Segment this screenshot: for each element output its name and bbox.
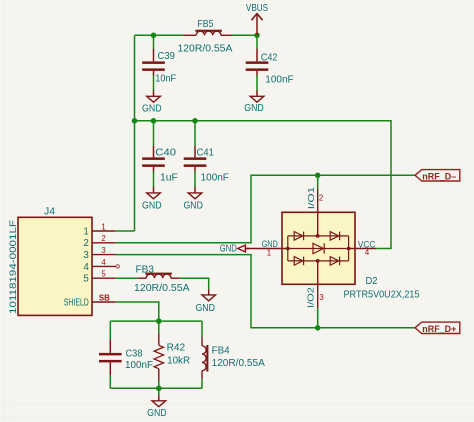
svg-text:C42: C42 (261, 52, 278, 63)
wire SHIELD run (116, 302, 159, 321)
svg-text:D2: D2 (366, 276, 378, 287)
resistor R42 (158, 334, 160, 346)
ground D2 pin1 (238, 245, 246, 252)
svg-text:5: 5 (101, 270, 106, 279)
svg-text:SHIELD: SHIELD (64, 297, 89, 308)
svg-text:GND: GND (142, 103, 162, 114)
global label nRF_D+ (415, 322, 460, 333)
sheet frame line bottom (0, 403, 474, 405)
svg-text:2: 2 (319, 194, 323, 203)
svg-text:VBUS: VBUS (246, 3, 269, 14)
svg-text:SB: SB (99, 293, 110, 302)
svg-text:GND: GND (244, 103, 264, 114)
svg-text:100nF: 100nF (265, 75, 293, 86)
svg-text:4: 4 (83, 262, 89, 273)
junction VCC bus / C40 (151, 118, 157, 124)
wire D2 GND stub (245, 248, 249, 250)
svg-text:PRTR5V0U2X,215: PRTR5V0U2X,215 (344, 290, 420, 301)
ground C41 (194, 187, 196, 193)
junction VCC bus / C41 (192, 118, 198, 124)
D2 diode top-left (294, 232, 303, 241)
svg-text:C39: C39 (158, 51, 176, 62)
svg-text:10118194-0001LF: 10118194-0001LF (8, 220, 18, 314)
svg-text:C38: C38 (126, 349, 143, 360)
svg-text:1: 1 (267, 248, 271, 257)
svg-text:2: 2 (83, 238, 88, 249)
capacitor C40 (153, 146, 155, 157)
wire VCC bus (135, 121, 392, 249)
svg-text:GND: GND (147, 408, 167, 419)
wire C40 drop (153, 121, 155, 146)
connector J4 pins (92, 230, 116, 232)
wire C39 drop (153, 35, 155, 48)
D2 pin4 VCC (349, 248, 377, 250)
J4 pin4 unconnected circle (116, 265, 119, 268)
ground C40 (153, 187, 155, 193)
svg-text:4: 4 (365, 248, 370, 257)
wire C38 branch (109, 321, 111, 339)
ground C42 (256, 91, 258, 97)
svg-text:4: 4 (101, 258, 106, 267)
junction top wire / VBUS (254, 33, 260, 39)
svg-text:120R/0.55A: 120R/0.55A (134, 283, 190, 294)
svg-text:120R/0.55A: 120R/0.55A (212, 358, 265, 369)
wire C40 to GND (153, 172, 155, 188)
junction shield rail top (156, 318, 162, 324)
svg-text:10nF: 10nF (155, 73, 176, 84)
capacitor C41 (194, 146, 196, 157)
svg-text:FB4: FB4 (212, 345, 230, 356)
wire shield bottom rail (110, 387, 202, 389)
wire nRF_D+ run (116, 255, 415, 328)
wire VBUS top run (135, 34, 184, 36)
ferrite bead FB3 (137, 277, 146, 279)
svg-text:nRF_D+: nRF_D+ (422, 324, 457, 334)
junction shield rail bottom (156, 386, 162, 392)
wire C42 drop (256, 35, 258, 48)
svg-text:FB5: FB5 (198, 19, 214, 30)
D2 pin3 I/O2 (317, 261, 319, 308)
svg-text:R42: R42 (167, 342, 186, 353)
ground shield rail (158, 395, 160, 401)
wire FB4 branch (201, 321, 203, 337)
wire FB3 to GND (180, 278, 209, 289)
D2 pin1 GND (249, 248, 288, 250)
D2 internal rails (287, 236, 289, 261)
esd diode D2 body (282, 212, 355, 284)
D2 internal nodes (286, 247, 290, 251)
ferrite bead FB5 (184, 34, 197, 36)
svg-text:J4: J4 (44, 206, 55, 217)
svg-text:120R/0.55A: 120R/0.55A (178, 43, 233, 54)
svg-text:GND: GND (142, 200, 162, 211)
wire D2 I/O2 stub (317, 308, 319, 328)
svg-text:3: 3 (319, 293, 323, 302)
wire C41 to GND (194, 172, 196, 188)
svg-text:100nF: 100nF (201, 172, 229, 183)
wire nRF_D- run (116, 175, 415, 243)
D2 diode bottom-right (330, 257, 339, 266)
connector J4 body (18, 217, 92, 315)
wire R42 branch (158, 321, 160, 334)
D2 zener middle (313, 243, 323, 253)
junction top wire / C39 (151, 33, 157, 39)
svg-text:100nF: 100nF (125, 360, 153, 371)
global label nRF_D- (415, 170, 460, 181)
svg-text:3: 3 (101, 246, 105, 255)
svg-text:C40: C40 (155, 147, 176, 158)
svg-text:I/O1: I/O1 (307, 186, 316, 209)
svg-text:C41: C41 (197, 147, 214, 158)
wire shield top rail (110, 320, 202, 322)
junction nRF_D+ / D2 I-O2 (315, 325, 321, 331)
svg-text:GND: GND (183, 200, 203, 211)
capacitor C39 (153, 49, 155, 62)
svg-text:I/O2: I/O2 (307, 286, 316, 308)
svg-text:nRF_D–: nRF_D– (422, 171, 456, 181)
D2 pin2 I/O1 (317, 188, 319, 236)
ferrite bead FB4 (201, 337, 203, 346)
svg-text:GND: GND (220, 244, 237, 255)
wire left vertical to J4 pin 1 (134, 35, 136, 231)
D2 diode top-right (330, 232, 339, 241)
svg-text:1uF: 1uF (160, 172, 178, 183)
D2 diode bottom-left (294, 257, 303, 266)
wire D2 I/O1 stub (317, 175, 319, 188)
wire C42 to GND (256, 76, 258, 92)
svg-text:1: 1 (83, 226, 88, 237)
svg-text:10kR: 10kR (167, 356, 190, 367)
svg-text:3: 3 (83, 250, 89, 261)
wire R42 GND drop (158, 388, 160, 395)
svg-text:5: 5 (83, 274, 89, 285)
power symbol VBUS (256, 15, 258, 35)
svg-text:FB3: FB3 (136, 264, 155, 275)
wire pin5 to FB3 (116, 277, 138, 279)
ground C39 (153, 91, 155, 97)
capacitor C38 (109, 340, 111, 353)
capacitor C42 (256, 49, 258, 62)
junction left vertical / VCC bus (132, 118, 138, 124)
svg-text:1: 1 (101, 222, 105, 231)
wire C41 drop (194, 121, 196, 146)
svg-text:GND: GND (195, 303, 215, 314)
wire C39 to GND (153, 76, 155, 92)
junction nRF_D- / D2 I-O1 (315, 173, 321, 179)
ground FB3 (208, 289, 210, 295)
svg-text:2: 2 (101, 234, 105, 243)
sheet frame line left (3, 0, 5, 422)
